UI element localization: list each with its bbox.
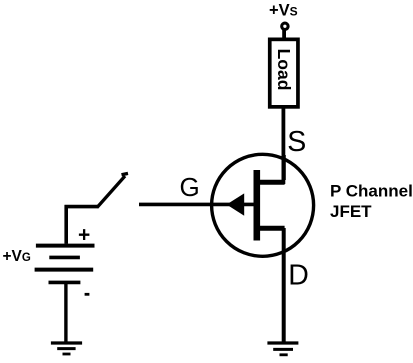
battery VG plus sign — [78, 224, 90, 247]
wire source vertical inside circle — [282, 155, 286, 180]
battery VG plate 2 short — [49, 256, 80, 260]
switch SW1 blade — [97, 173, 128, 207]
ground (battery side) — [51, 343, 82, 354]
node +Vs terminal circle — [282, 23, 288, 29]
svg-text:+VS: +VS — [269, 2, 298, 20]
svg-text:P Channel: P Channel — [330, 182, 413, 201]
switch SW1 pole wire vertical — [64, 205, 68, 244]
svg-text:D: D — [288, 260, 309, 292]
wire gate lead — [139, 203, 254, 207]
resistor Load box — [270, 39, 298, 107]
svg-text:Load: Load — [274, 49, 294, 91]
battery VG plate 4 short — [49, 281, 81, 285]
wire battery to ground — [64, 283, 67, 344]
svg-text:S: S — [287, 126, 306, 158]
svg-text:JFET: JFET — [330, 202, 372, 221]
battery VG plate 3 long — [35, 268, 94, 272]
wire Load to source — [281, 106, 285, 184]
transistor Q1 drain stub — [256, 226, 285, 231]
node S label — [287, 126, 306, 158]
node D label — [288, 260, 309, 292]
resistor Load value label — [274, 49, 294, 91]
wire drain vertical to ground — [282, 228, 286, 343]
transistor Q1 channel bar — [254, 170, 261, 241]
battery VG minus sign — [85, 293, 90, 296]
transistor Q1 source stub — [256, 180, 285, 185]
ground (drain side) — [267, 343, 298, 355]
battery VG label — [3, 248, 31, 265]
node G label — [180, 172, 200, 202]
switch SW1 pole wire horizontal — [65, 205, 99, 209]
transistor Q1 body circle — [212, 154, 314, 256]
node +Vs label — [269, 2, 298, 20]
svg-text:G: G — [180, 172, 200, 202]
annotation P Channel JFET — [330, 182, 413, 221]
wire terminal to Load — [282, 30, 286, 40]
svg-text:+: + — [78, 224, 90, 247]
transistor Q1 gate arrow (P-channel) — [227, 193, 245, 215]
battery VG plate 1 long — [36, 244, 95, 248]
